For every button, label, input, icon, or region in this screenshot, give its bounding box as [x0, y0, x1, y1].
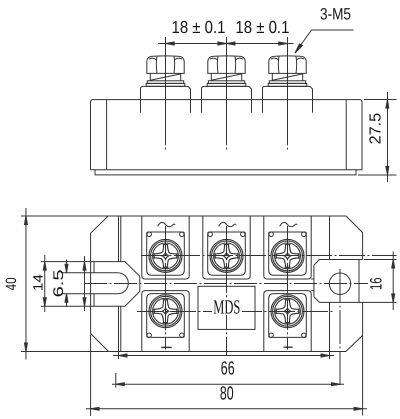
terminal T3 side view: [263, 56, 313, 113]
centerline terminal 2: [226, 37, 228, 150]
DC plus terminal cell (plan): [142, 291, 189, 352]
centerline terminal 3: [287, 37, 289, 150]
40 arrows: [24, 216, 27, 352]
tilde AC mark 3: [280, 222, 298, 226]
svg-text:40: 40: [3, 277, 20, 290]
mounting hole vertical centerline / 80 extension: [339, 269, 341, 387]
module body (side view): [91, 100, 363, 170]
svg-text:18 ± 0.1: 18 ± 0.1: [235, 17, 289, 37]
mounting slot bottom line with 6.5 extension: [61, 293, 118, 295]
right boss top edge with 16 extension: [320, 259, 397, 261]
minus mark: [284, 346, 293, 348]
AC terminal cell 2 (plan): [203, 216, 250, 279]
svg-text:3-M5: 3-M5: [320, 6, 351, 24]
14 arrows: [43, 262, 46, 307]
right end-cap line: [345, 100, 347, 170]
dimension 40 line: [25, 208, 27, 360]
outer dimension extension left: [90, 335, 92, 416]
80 arrows: [116, 383, 340, 386]
outer dimension extension right: [362, 335, 364, 415]
mounting slot top line with 6.5 extension: [61, 272, 118, 274]
dimension 14 line: [44, 255, 46, 312]
66 arrows: [119, 354, 330, 357]
AC terminal cell 1 (plan): [142, 216, 189, 279]
row 1 centerline: [141, 255, 397, 257]
svg-text:66: 66: [221, 359, 235, 380]
left end-cap line: [106, 100, 108, 170]
dimension 27.5 line: [387, 92, 389, 182]
DC minus terminal cell (plan): [264, 291, 311, 352]
text mask under MDS: [212, 298, 242, 315]
terminal T2 side view: [202, 56, 252, 113]
column 2 centerline: [226, 226, 228, 356]
right boss bottom edge with 16 extension: [320, 301, 397, 303]
svg-text:14: 14: [30, 274, 45, 292]
svg-text:80: 80: [220, 384, 234, 405]
horizontal main centerline: [84, 283, 368, 285]
leader arrow 3-M5: [295, 44, 303, 53]
centerline terminal 1: [165, 37, 167, 150]
dimension 6.5 lines (outside arrows): [66, 260, 68, 308]
baseplate (side view): [95, 170, 356, 175]
MDS label box: [198, 286, 255, 329]
left fork boss right edge: [139, 276, 141, 291]
dimension 27.5 arrows: [386, 100, 389, 175]
inner dimension line at fork: [84, 256, 86, 311]
left fork boss top edge with 14 extension: [41, 262, 140, 277]
arrow right of second 18 dim: [279, 42, 288, 45]
dimension 80 line: [112, 383, 344, 385]
dimension 27.5 extension lines: [358, 100, 397, 176]
dimension 16 line: [392, 252, 394, 311]
6.5 arrows: [65, 264, 68, 302]
column 1 centerline: [165, 226, 167, 350]
inner dimension arrows at fork: [83, 262, 86, 307]
tilde AC mark 1: [158, 222, 176, 226]
left fork boss bottom edge with 14 extension: [41, 291, 140, 306]
dimension 18±0.1 pitch line: [158, 43, 294, 45]
svg-text:27.5: 27.5: [368, 113, 385, 145]
arrow left of first 18 dim: [166, 42, 175, 45]
plus mark: [161, 346, 172, 348]
66 extension left: [118, 352, 120, 360]
dimension 66 line: [113, 355, 334, 357]
terminal T1 side view: [141, 56, 191, 113]
left fork inner edge: [93, 262, 95, 307]
row 2 centerline: [137, 311, 333, 313]
top edge extension to 40 dim: [21, 215, 108, 217]
80 extension left (slot centre): [115, 373, 117, 388]
svg-text:18 ± 0.1: 18 ± 0.1: [172, 17, 226, 37]
body mold step line left: [120, 216, 122, 352]
svg-text:MDS: MDS: [213, 297, 240, 319]
AC terminal cell 3 (plan): [264, 216, 311, 279]
body mold line left (66 ref): [118, 216, 120, 352]
right boss around hole: [314, 260, 359, 303]
leader line for 3-M5: [295, 30, 354, 53]
tilde AC mark 2: [219, 222, 237, 226]
arrows at middle of 18 dims: [218, 42, 235, 45]
module outline octagon (plan view): [91, 216, 363, 352]
outer dimension arrows: [91, 407, 363, 410]
svg-text:16: 16: [367, 278, 385, 291]
66 extension right: [329, 352, 331, 360]
outer dimension line (text cropped): [86, 408, 367, 410]
body mold line right (66 ref): [329, 216, 331, 352]
svg-text:6.5: 6.5: [50, 269, 66, 297]
column 3 centerline: [287, 226, 289, 350]
connector segments well3 to right boss: [311, 279, 314, 291]
bottom edge extension to 40 dim: [21, 351, 109, 353]
16 arrows: [392, 260, 395, 303]
mounting slot end arc: [118, 273, 129, 294]
mounting hole: [329, 273, 350, 294]
